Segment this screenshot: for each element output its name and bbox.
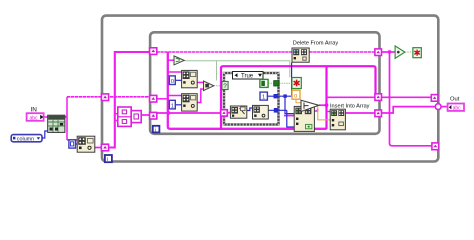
- wire green T1 out: [184, 61, 290, 78]
- junction dot x389: [388, 50, 392, 54]
- wire tunnel A to shift reg outer: [382, 96, 432, 98]
- wire inner y99: [157, 98, 168, 100]
- blue tunnel y96 on case: [274, 94, 278, 98]
- inner loop tunnel left y116: [150, 112, 157, 119]
- wire down to index icon: [67, 139, 77, 141]
- equal comparison triangle T2: [204, 81, 214, 91]
- wire icon D out blue: [268, 109, 287, 111]
- case selector label: [233, 72, 264, 80]
- outer loop shift register left top: [101, 94, 108, 101]
- IN string control terminal: [27, 113, 44, 121]
- blue constant under subVI: [69, 140, 76, 148]
- case structure border: [224, 73, 279, 125]
- while loop outer border: [102, 16, 438, 162]
- array icon C in case: [230, 106, 246, 118]
- build array node: [118, 107, 141, 126]
- svg-text:column: column: [17, 136, 34, 142]
- svg-text:Insert Into Array: Insert Into Array: [330, 103, 370, 109]
- svg-text:abc: abc: [30, 115, 39, 121]
- wire x166 vertical: [168, 52, 327, 129]
- svg-text:i: i: [107, 157, 108, 163]
- svg-text:1: 1: [171, 103, 174, 109]
- svg-text:Delete From Array: Delete From Array: [293, 41, 339, 47]
- inner loop tunnel left y51: [150, 48, 157, 55]
- inner loop iteration terminal: [153, 126, 160, 134]
- svg-text:0: 0: [171, 79, 174, 85]
- empty array triangle T4: [395, 46, 405, 59]
- inner loop tunnel right y52: [375, 49, 382, 56]
- svg-text:?: ?: [223, 83, 227, 90]
- wire tunnel B to out junction: [382, 107, 437, 113]
- wire bottom riser x115: [109, 52, 150, 148]
- wire case input magenta: [227, 112, 230, 114]
- wire out junction to Out: [441, 106, 448, 108]
- wire blue vertical to node: [285, 98, 294, 114]
- wire stub icon A: [168, 71, 182, 73]
- junction dot select out: [325, 103, 329, 107]
- wire icon A out: [197, 81, 204, 83]
- wire blue const to index icon: [76, 143, 78, 145]
- outer loop shift register right y97: [431, 95, 438, 102]
- inner loop shift register left y98: [150, 95, 157, 102]
- outer loop tunnel left bottom: [101, 144, 108, 151]
- inner loop shift register right y97: [375, 94, 382, 101]
- wire select out: [319, 104, 327, 106]
- true boolean constant: [260, 79, 268, 87]
- svg-text:1: 1: [262, 95, 265, 101]
- wire insert out to tunnel B: [345, 112, 375, 114]
- wire junction vertical right: [390, 52, 433, 146]
- wire green triangle to stop: [405, 51, 413, 53]
- wire T2 to case selector: [214, 85, 222, 87]
- out junction circle on border: [435, 104, 441, 110]
- junction dot y113: [167, 111, 171, 115]
- wire inner top y52: [157, 51, 293, 53]
- wire delete out y52: [309, 51, 375, 53]
- blue constant 1 case: [260, 92, 267, 101]
- junction blue dot: [283, 94, 286, 97]
- outer loop tunnel right y146: [432, 143, 439, 150]
- Out string indicator terminal: [448, 104, 464, 112]
- delete from array icon: [292, 48, 309, 62]
- wire icon B out: [197, 89, 204, 103]
- wire orange const out: [296, 99, 301, 103]
- select triangle T3: [301, 100, 319, 111]
- svg-text:i: i: [155, 127, 156, 133]
- wire y97 to tunnel A: [327, 96, 376, 98]
- wire into outer loop y97: [67, 96, 150, 98]
- stop icon R2: [413, 48, 421, 58]
- svg-text:Out: Out: [450, 96, 460, 102]
- stop icon R1: [292, 78, 301, 89]
- case structure magenta frame: [221, 66, 376, 129]
- wire dotted green true const: [268, 82, 273, 84]
- orange constant: [292, 90, 300, 99]
- wire blue const 1 in case: [268, 95, 292, 97]
- blue tunnel y110 on case: [274, 108, 279, 113]
- outer loop iteration terminal: [105, 155, 112, 163]
- case input tunnel: [221, 110, 228, 116]
- insert into array icon: [330, 109, 345, 130]
- wire blue 0 const: [175, 79, 181, 81]
- wire insert input stub: [327, 111, 331, 113]
- wire build array out to tunnel: [141, 114, 150, 116]
- triangle node T1 empty string: [174, 56, 184, 65]
- inner loop tunnel right y113: [375, 110, 382, 117]
- wire blue vertical to delete index: [291, 63, 293, 97]
- wire subVI output: [65, 116, 67, 118]
- wire build array input 1: [115, 113, 118, 115]
- wire IN to subVI: [44, 116, 48, 118]
- svg-text:True: True: [241, 74, 254, 80]
- wire build array input 2: [115, 120, 118, 122]
- while loop inner border: [150, 32, 379, 134]
- wire orange to insert: [318, 106, 330, 120]
- wire dotted green tunnel to stop icon: [279, 82, 292, 84]
- index array icon left: [77, 136, 95, 152]
- wire index icon out to tunnel: [95, 147, 102, 149]
- node replace subset: [294, 106, 314, 131]
- wire node out to select: [314, 109, 317, 112]
- case selector terminal: [222, 81, 228, 90]
- svg-text:abc: abc: [453, 106, 462, 112]
- wire blue 1 const: [175, 104, 181, 106]
- subVI icon: [48, 115, 65, 132]
- blue constant 1: [169, 100, 175, 109]
- blue constant 0: [169, 76, 175, 85]
- wire icon C to D blue: [247, 108, 253, 111]
- wire stub T1: [168, 59, 174, 61]
- green tunnel on case: [274, 81, 279, 86]
- index array icon A: [182, 70, 198, 87]
- wire stub icon B: [168, 95, 182, 97]
- wire x326 vertical: [325, 66, 327, 129]
- wire blue vertical 2 to node: [287, 110, 298, 127]
- wire green branch: [216, 61, 218, 81]
- array icon D in case: [253, 105, 269, 119]
- wire column to subVI blue: [42, 131, 48, 138]
- wire y52 to triangle: [382, 51, 396, 53]
- column ring constant: [11, 135, 42, 143]
- wire vertical left riser: [66, 97, 68, 140]
- index array icon B: [182, 94, 198, 111]
- wire node left input: [284, 115, 294, 117]
- wire inner y116: [157, 112, 225, 114]
